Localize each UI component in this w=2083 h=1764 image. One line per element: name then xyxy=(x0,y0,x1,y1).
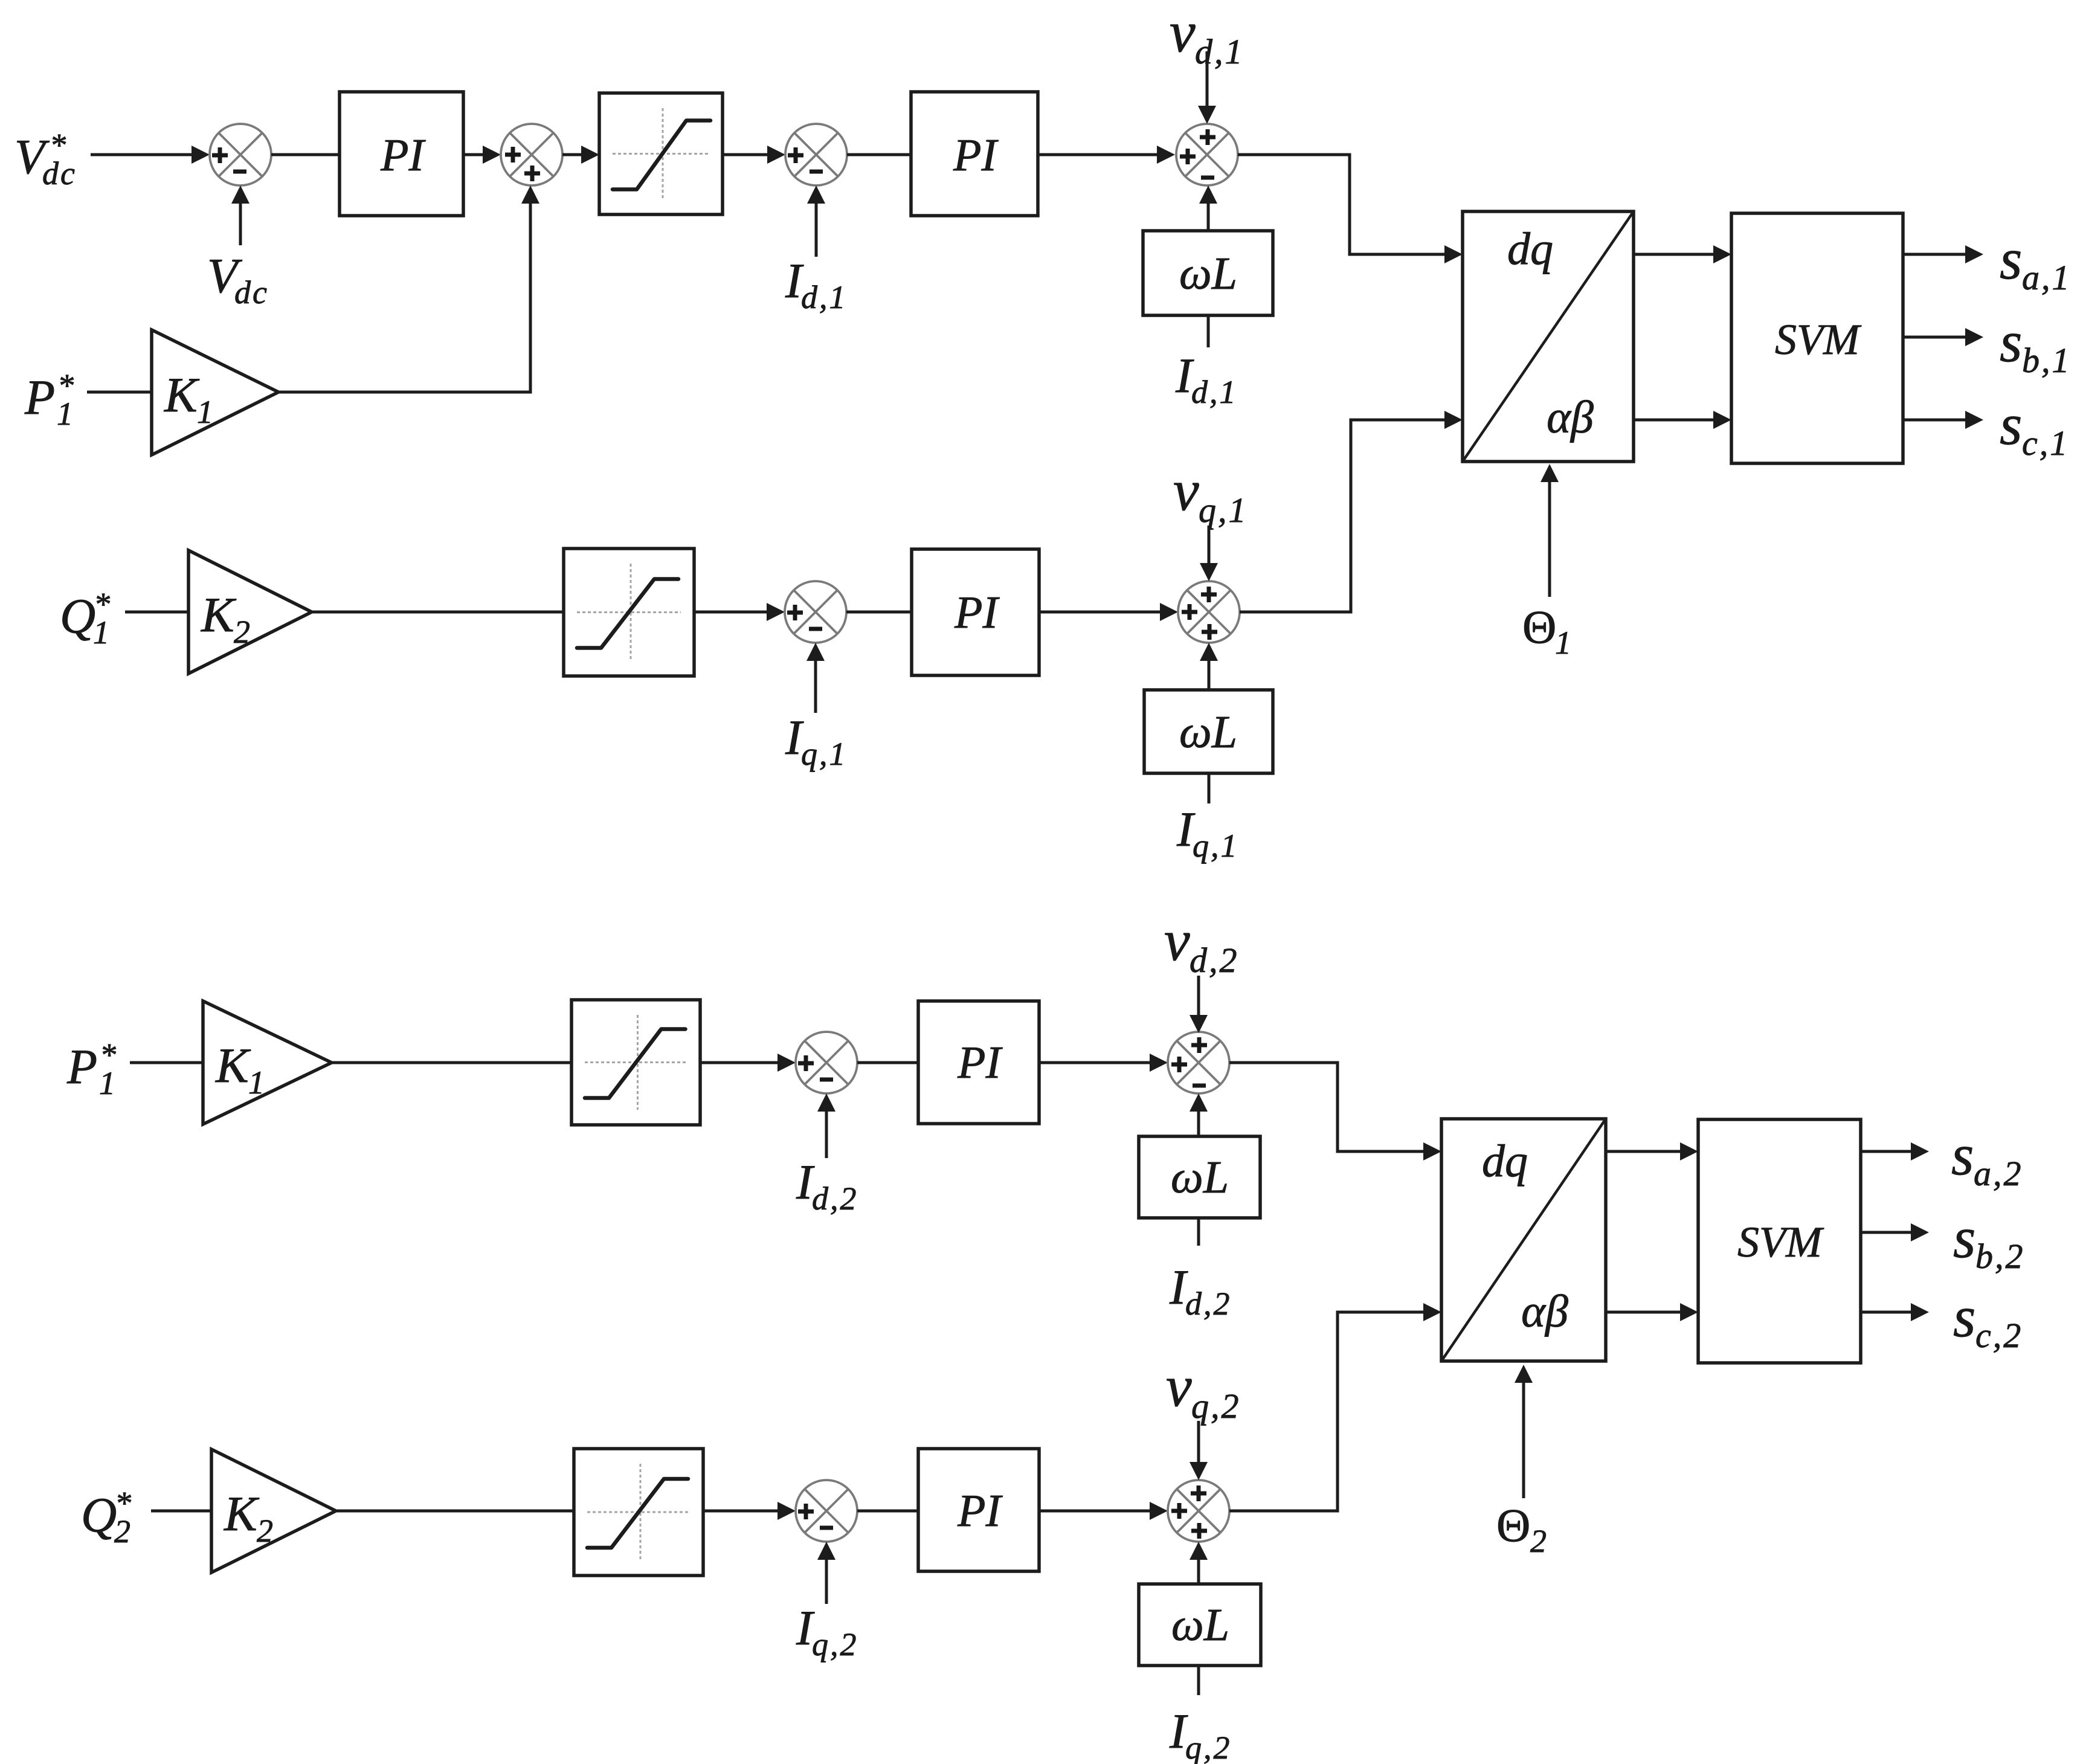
svg-text:2: 2 xyxy=(1530,1523,1547,1559)
svg-text:2: 2 xyxy=(257,1513,273,1549)
svg-text:s: s xyxy=(1953,1205,1975,1270)
svg-text:P: P xyxy=(24,370,55,425)
svg-text:q,2: q,2 xyxy=(812,1626,858,1663)
wire SVM1 output sa1 xyxy=(1903,245,1983,263)
summer S6 (vq1 feedforward, wL decouple) xyxy=(1178,581,1240,643)
svg-text:q,1: q,1 xyxy=(1193,828,1239,864)
wire Iq1 into wL2 bottom xyxy=(1208,773,1211,803)
svg-text:1: 1 xyxy=(93,614,109,651)
wire S4 output to dq block d-input xyxy=(1238,155,1463,263)
svg-text:PI: PI xyxy=(954,587,1000,638)
wire Iq2 into wL4 bottom xyxy=(1197,1666,1200,1695)
wire wL3 up into S8 xyxy=(1190,1093,1208,1136)
wire S6 output to dq block q-input xyxy=(1240,411,1463,612)
controller block PI5 xyxy=(918,1449,1039,1571)
svg-text:d,2: d,2 xyxy=(1185,1286,1232,1322)
wire Id2 measured arrow into S7 xyxy=(817,1093,835,1158)
controller block PI2 xyxy=(911,92,1038,216)
saturation block SAT4 xyxy=(574,1449,703,1576)
wire S8 output to DQ2 d-input xyxy=(1229,1063,1441,1160)
wire Q2* to gain K2b xyxy=(151,1510,211,1513)
wire wL4 up into S10 xyxy=(1190,1542,1208,1584)
svg-text:PI: PI xyxy=(957,1486,1003,1536)
wire Vdc feedback arrow into S1 xyxy=(231,185,250,245)
node Id2 feedback label under S7 xyxy=(796,1154,858,1217)
wire vq2 arrow down into S10 xyxy=(1190,1421,1208,1480)
wire DQ1 to SVM1 lower xyxy=(1634,411,1731,429)
gain K2 (triangle amp) xyxy=(188,550,312,674)
gain K1 (triangle amp) xyxy=(152,330,278,455)
node vd2 feedforward label xyxy=(1164,908,1239,980)
wire SVM2 output sb2 xyxy=(1861,1223,1929,1241)
svg-text:b,1: b,1 xyxy=(2022,341,2072,380)
svg-text:q,1: q,1 xyxy=(1199,491,1248,530)
svg-text:s: s xyxy=(1951,1122,1974,1187)
svg-text:2: 2 xyxy=(234,614,250,650)
svg-text:αβ: αβ xyxy=(1521,1286,1568,1337)
svg-text:v: v xyxy=(1170,0,1196,64)
svg-text:q,2: q,2 xyxy=(1185,1730,1232,1764)
wire K2b to saturation block SAT4 xyxy=(336,1510,574,1513)
svg-text:K: K xyxy=(224,1486,260,1541)
svg-text:q,2: q,2 xyxy=(1191,1386,1241,1426)
wire S7 to block PI4 xyxy=(857,1061,918,1064)
wire SAT2 to summer S5 xyxy=(694,603,785,621)
wire P1* to gain K1b xyxy=(130,1061,203,1064)
svg-text:1: 1 xyxy=(57,396,73,432)
wire SAT4 to summer S9 xyxy=(703,1502,796,1520)
wire Iq2 measured arrow into S9 xyxy=(817,1542,835,1604)
wire K1b to saturation block SAT3 xyxy=(332,1061,571,1064)
node P1* input label xyxy=(24,367,74,432)
summer S9 (Iq2 error) xyxy=(796,1480,857,1542)
wire SVM2 output sa2 xyxy=(1861,1142,1929,1160)
svg-text:a,2: a,2 xyxy=(1974,1154,2023,1193)
svg-text:d,2: d,2 xyxy=(812,1180,858,1217)
wire vd1 arrow down into S4 xyxy=(1198,51,1216,124)
wire SVM2 output sc2 xyxy=(1861,1303,1929,1321)
svg-text:PI: PI xyxy=(380,130,426,181)
svg-text:ωL: ωL xyxy=(1171,1152,1229,1203)
node vq1 feedforward label xyxy=(1173,458,1248,530)
gain block wL1 xyxy=(1143,231,1273,315)
svg-text:K: K xyxy=(164,367,200,422)
wire Id1 measured arrow into S3 xyxy=(807,185,825,257)
wire wL2 up into S6 xyxy=(1200,643,1218,690)
node Iq2 label under wL4 xyxy=(1169,1704,1232,1764)
svg-text:1: 1 xyxy=(1555,625,1571,661)
svg-text:s: s xyxy=(2000,309,2022,374)
node Iq2 feedback label under S9 xyxy=(796,1600,858,1663)
svg-text:v: v xyxy=(1166,1354,1192,1418)
svg-text:v: v xyxy=(1173,458,1199,523)
wire PI2 to summer S4 xyxy=(1038,146,1175,164)
wire SAT3 to summer S7 xyxy=(700,1054,796,1072)
svg-text:s: s xyxy=(2000,227,2022,291)
svg-text:K: K xyxy=(201,587,237,642)
node Vdc* reference input label xyxy=(14,127,77,192)
wire S1 to block PI1 xyxy=(271,153,340,156)
summer S4 (vd1 feedforward, wL decouple) xyxy=(1176,124,1238,185)
svg-text:d,1: d,1 xyxy=(801,279,848,315)
svg-text:dc: dc xyxy=(42,155,77,192)
gain K1b (triangle amp) xyxy=(203,1001,332,1124)
node Iq1 label under wL2 xyxy=(1176,802,1239,864)
wire PI4 to summer S8 xyxy=(1039,1054,1168,1072)
svg-text:Q: Q xyxy=(60,588,95,643)
svg-text:d,1: d,1 xyxy=(1191,374,1238,410)
svg-text:c,2: c,2 xyxy=(1975,1316,2023,1355)
gain block wL4 xyxy=(1139,1584,1261,1666)
transform block DQ2 (dq to alpha-beta) xyxy=(1441,1119,1606,1361)
node sb1 output label xyxy=(2000,309,2072,380)
svg-text:c,1: c,1 xyxy=(2022,423,2069,463)
summer S8 (vd2 feedforward, wL decouple) xyxy=(1168,1032,1229,1093)
wire Q1* to gain K2 xyxy=(125,611,188,614)
svg-text:Θ: Θ xyxy=(1496,1499,1530,1551)
node sb2 output label xyxy=(1953,1205,2025,1276)
svg-text:a,1: a,1 xyxy=(2022,258,2072,297)
gain K2b (triangle amp) xyxy=(211,1449,336,1572)
svg-text:dq: dq xyxy=(1482,1136,1528,1186)
node sc1 output label xyxy=(2000,392,2069,463)
node sa1 output label xyxy=(2000,227,2072,297)
wire P1* to gain K1 xyxy=(87,391,152,394)
svg-text:1: 1 xyxy=(197,394,213,430)
wire K2 to saturation block SAT2 xyxy=(312,611,564,614)
wire vd2 arrow down into S8 xyxy=(1190,976,1208,1033)
wire PI5 to summer S10 xyxy=(1039,1502,1168,1520)
node vd1 feedforward label xyxy=(1170,0,1244,71)
node Q1* input label xyxy=(60,586,110,651)
wire Vdc* input to summer S1 xyxy=(91,146,210,164)
svg-text:1: 1 xyxy=(99,1065,115,1101)
svg-text:1: 1 xyxy=(248,1064,265,1101)
svg-text:q,1: q,1 xyxy=(801,736,848,772)
wire K1 output up into S2 xyxy=(278,185,539,392)
svg-text:Θ: Θ xyxy=(1522,600,1556,653)
wire wL1 up into S4 xyxy=(1199,185,1217,231)
controller block PI4 xyxy=(918,1001,1039,1124)
saturation block SAT1 xyxy=(599,93,723,214)
node Iq1 feedback label under S5 xyxy=(785,710,848,772)
svg-text:d,1: d,1 xyxy=(1195,32,1244,71)
svg-text:b,2: b,2 xyxy=(1975,1237,2025,1276)
wire DQ2 to SVM2 upper xyxy=(1606,1142,1698,1160)
node Theta1 angle label xyxy=(1522,600,1571,661)
node Theta2 angle label xyxy=(1496,1499,1547,1559)
node P1* input label (converter 2) xyxy=(66,1037,116,1101)
wire Iq1 measured arrow into S5 xyxy=(806,643,825,713)
wire Theta2 arrow into DQ2 xyxy=(1515,1365,1533,1498)
svg-text:v: v xyxy=(1164,908,1190,973)
svg-text:dc: dc xyxy=(234,274,269,311)
controller block PI1 xyxy=(340,92,463,216)
wire vq1 arrow down into S6 xyxy=(1200,526,1218,581)
summer S5 (Iq error) xyxy=(785,581,846,643)
summer S7 (Id2 error) xyxy=(796,1032,857,1093)
gain block wL3 xyxy=(1139,1136,1260,1218)
svg-text:d,2: d,2 xyxy=(1190,941,1239,980)
wire SVM1 output sc1 xyxy=(1903,411,1983,429)
wire DQ1 to SVM1 upper xyxy=(1634,245,1731,263)
wire PI1 to summer S2 xyxy=(463,146,501,164)
transform block DQ1 (dq to alpha-beta) xyxy=(1463,211,1634,462)
node Q2* input label xyxy=(81,1485,131,1550)
wire S3 to block PI2 xyxy=(847,153,911,156)
svg-text:PI: PI xyxy=(957,1037,1003,1088)
summer S2 (adds P1* feedforward) xyxy=(501,124,562,185)
gain block wL2 xyxy=(1144,690,1273,773)
svg-text:ωL: ωL xyxy=(1179,248,1237,299)
svg-text:SVM: SVM xyxy=(1775,315,1862,364)
svg-text:PI: PI xyxy=(953,130,999,181)
modulator block SVM2 xyxy=(1698,1119,1861,1363)
node Id1 label under wL1 xyxy=(1175,348,1238,410)
svg-text:ωL: ωL xyxy=(1171,1600,1229,1650)
wire S10 output to DQ2 q-input xyxy=(1229,1303,1441,1511)
saturation block SAT2 xyxy=(564,549,694,676)
wire DQ2 to SVM2 lower xyxy=(1606,1303,1698,1321)
svg-text:s: s xyxy=(2000,392,2022,457)
modulator block SVM1 xyxy=(1731,213,1903,463)
controller block PI3 xyxy=(912,549,1039,675)
node vq2 feedforward label xyxy=(1166,1354,1241,1426)
wire S5 to block PI3 xyxy=(846,611,912,614)
node sc2 output label xyxy=(1953,1284,2023,1355)
wire SVM1 output sb1 xyxy=(1903,328,1983,346)
node Vdc feedback label xyxy=(207,248,269,311)
svg-text:Q: Q xyxy=(81,1487,117,1542)
summer S10 (vq2 feedforward, wL decouple) xyxy=(1168,1480,1229,1542)
node Id2 label under wL3 xyxy=(1169,1260,1232,1322)
svg-text:s: s xyxy=(1953,1284,1975,1349)
wire SAT1 to summer S3 xyxy=(723,146,785,164)
wire S2 to saturation block SAT1 xyxy=(562,146,599,164)
svg-text:ωL: ωL xyxy=(1179,707,1237,758)
svg-text:SVM: SVM xyxy=(1737,1218,1824,1266)
node Id1 feedback label under S3 xyxy=(785,253,848,315)
node sa2 output label xyxy=(1951,1122,2023,1193)
svg-text:2: 2 xyxy=(114,1513,130,1550)
wire S9 to block PI5 xyxy=(857,1510,918,1513)
svg-text:αβ: αβ xyxy=(1547,392,1594,443)
summer S3 (Id error) xyxy=(785,124,847,185)
svg-text:K: K xyxy=(215,1038,251,1093)
saturation block SAT3 xyxy=(571,1000,700,1125)
wire Id1 into wL1 bottom xyxy=(1207,315,1210,347)
svg-text:dq: dq xyxy=(1507,224,1553,274)
wire Id2 into wL3 bottom xyxy=(1197,1218,1200,1246)
wire Theta1 arrow into DQ1 xyxy=(1541,464,1559,597)
summer S1 (Vdc error) xyxy=(210,124,271,185)
wire PI3 to summer S6 xyxy=(1039,603,1178,621)
svg-text:P: P xyxy=(66,1039,97,1094)
